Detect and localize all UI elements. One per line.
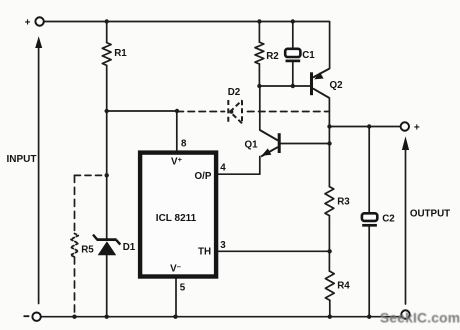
resistor R4 [325,271,334,300]
svg-text:C1: C1 [302,50,315,61]
transistor Q1 emitter lead [261,147,278,157]
transistor Q1 emitter arrow [262,148,272,155]
svg-text:4: 4 [220,162,226,173]
diode D2 cathode bar (dashed) [227,100,229,124]
svg-text:R4: R4 [337,280,350,291]
IC U1 ICL 8211 box [140,153,216,277]
wire: input arrow shaft [38,47,40,304]
zener diode D1 cathode bar [97,238,117,241]
capacitor C2 bottom plate [362,224,377,227]
transistor Q2 collector lead [313,88,330,98]
diode D2 triangle (dashed) [230,100,242,112]
resistor R1 [102,43,111,66]
wire: R2/C1 node to Q2 base [259,85,311,87]
wire: bottom rail [41,316,400,318]
capacitor C2 lead top [368,127,370,213]
svg-text:+: + [25,18,31,29]
wire: dashed link pin8 node to D2 [177,111,225,113]
node: D1 / R5 tap [105,173,109,177]
wire: R5 dashed branch upper vertical [74,175,76,233]
svg-text:Q2: Q2 [329,80,343,91]
svg-text:C2: C2 [382,213,395,224]
svg-text:O/P: O/P [195,171,212,182]
node: output / spine [327,124,331,128]
transistor Q1 base bar [278,133,281,153]
resistor R2 [255,42,264,64]
wire: below D1 to bottom rail [106,255,108,317]
zener diode D1 anode triangle [98,241,117,255]
svg-text:R5: R5 [81,245,94,256]
node: top rail / R2 [257,19,261,23]
wire: R2 bottom [258,64,260,86]
wire: R1 branch top [106,22,108,43]
node: bottom rail / C2 [367,315,371,319]
wire: output node horizontal [330,126,401,128]
wire: IC pin 5 drop [175,279,177,317]
input arrowhead [35,36,42,48]
transistor Q2 emitter arrow [314,72,323,79]
node: bottom rail / pin 5 [173,315,177,319]
wire: mid horizontal node to pin 8 [107,110,177,112]
svg-text:8: 8 [181,139,187,150]
terminal: output return [401,310,409,318]
wire: Q1 base to output node [280,143,329,145]
svg-text:OUTPUT: OUTPUT [410,208,450,219]
capacitor C1 lead bottom [292,62,294,86]
node: top rail / C1 [291,19,295,23]
svg-text:D2: D2 [228,87,241,98]
output arrowhead [402,136,409,150]
svg-text:Q1: Q1 [244,139,258,150]
wire: R2 branch top [258,22,260,43]
svg-text:R2: R2 [266,51,279,62]
terminal: input + [35,17,43,25]
terminal: input - [32,313,40,321]
wire: dashed link D2 to Q2 collector line [248,111,330,113]
resistor R3 [325,187,334,216]
zener diode D1 left hook [93,235,97,240]
wire: R4 to bottom rail [329,300,331,316]
wire: Q2 collector spine [328,98,330,187]
node: R1 bottom / mid wire [105,109,109,113]
transistor Q2 base bar [310,72,313,95]
svg-text:R1: R1 [114,48,127,59]
wire: output arrow shaft [405,148,407,304]
wire: pin 8 drop [176,111,178,151]
transistor Q1 collector lead [260,130,278,141]
capacitor C2 lead bottom [368,226,370,316]
capacitor C2 top plate [362,213,377,221]
svg-text:ICL 8211: ICL 8211 [156,213,197,224]
svg-text:+: + [414,122,420,133]
node: R2 bottom [257,84,261,88]
wire: R5 dashed branch horizontal [75,174,107,176]
wire: Q1 collector riser [259,86,261,130]
node: bottom rail / R4 [328,315,332,319]
capacitor C1 top plate [285,49,300,57]
svg-text:3: 3 [220,240,226,251]
diode D2 apex blob [229,110,233,114]
capacitor C1 lead top [292,22,294,49]
terminal: output + [401,122,409,130]
label: - at input return terminal [24,315,30,317]
wire: Q1 emitter drop and O/P link [218,157,260,175]
resistor R5 (dotted zigzag) [71,234,79,258]
transistor Q2 emitter lead [313,69,330,78]
capacitor C1 bottom plate [286,60,301,63]
wire: top supply rail [44,22,330,69]
wire: R1 bottom to node [106,65,108,111]
node: bottom rail / R5 [72,315,76,319]
svg-text:SeekIC.com: SeekIC.com [380,311,460,326]
node: top rail / R1 [105,19,109,23]
node: TH / divider [327,249,331,253]
wire: R5 dashed branch lower vertical [74,257,76,317]
svg-text:5: 5 [180,283,186,294]
svg-text:INPUT: INPUT [7,154,37,165]
node: C1 bottom [291,84,295,88]
node: bottom rail / D1 [105,315,109,319]
wire: D1 branch vertical [106,111,108,239]
node: pin 8 / dashed wire [175,109,179,113]
wire: TH pin 3 to divider node [218,250,330,252]
svg-text:D1: D1 [123,242,136,253]
zener diode D1 right hook [116,240,120,245]
wire: R3 to R4 [328,216,330,272]
node: Q1 base / spine [327,141,331,145]
svg-text:TH: TH [198,247,211,258]
node: output / C2 tap [367,124,371,128]
svg-text:R3: R3 [337,196,350,207]
